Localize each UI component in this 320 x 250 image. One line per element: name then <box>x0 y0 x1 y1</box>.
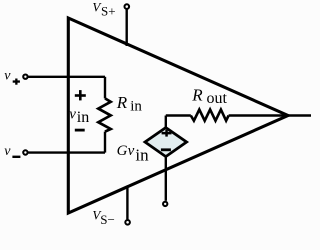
svg-text:S−: S− <box>100 212 115 227</box>
svg-text:S+: S+ <box>101 4 116 19</box>
svg-text:in: in <box>130 98 142 114</box>
svg-text:R: R <box>116 93 128 112</box>
svg-text:G: G <box>117 143 128 159</box>
svg-text:R: R <box>191 86 203 105</box>
svg-text:v: v <box>4 144 11 159</box>
svg-text:in: in <box>77 109 89 126</box>
svg-text:v: v <box>4 69 11 84</box>
svg-text:v: v <box>69 106 76 122</box>
svg-text:in: in <box>135 145 149 164</box>
svg-text:out: out <box>207 90 228 107</box>
svg-text:v: v <box>128 143 135 159</box>
